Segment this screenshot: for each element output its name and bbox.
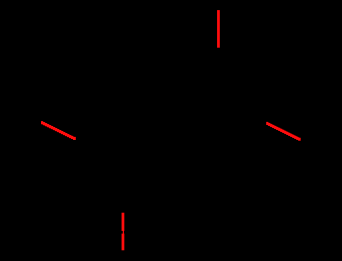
bond B4 junction connector xyxy=(122,231,124,235)
bond B2: left diagonal C-O bond xyxy=(42,123,74,139)
bond B4b: bottom vertical C-O bond, lower half xyxy=(122,234,125,251)
bond B3: right diagonal C-O bond xyxy=(267,123,299,139)
bond B1: top vertical C-O bond xyxy=(217,10,220,48)
bond B4a: bottom vertical C-O bond, upper half xyxy=(122,213,125,231)
